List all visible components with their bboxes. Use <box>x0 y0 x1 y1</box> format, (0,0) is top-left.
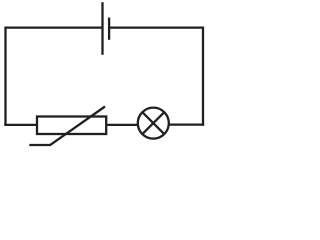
wire top-left (battery positive plate to top-left corner) <box>6 26 103 28</box>
wire thermistor to lamp <box>106 124 138 126</box>
wire right side <box>202 26 204 125</box>
lamp L1 circle <box>138 108 169 139</box>
thermistor RT1 diagonal with tail <box>29 107 105 146</box>
battery B1 long plate (positive) <box>101 2 103 55</box>
lamp L1 cross stroke 1 <box>142 112 164 134</box>
battery B1 short plate (negative) <box>108 18 110 40</box>
thermistor RT1 body <box>37 117 106 135</box>
wire top-right (battery negative plate to top-right corner) <box>109 26 203 28</box>
wire bottom-left (to thermistor) <box>4 124 37 126</box>
lamp L1 cross stroke 2 <box>142 112 164 134</box>
wire bottom-right (right corner to lamp) <box>169 123 204 125</box>
wire left side <box>4 26 6 126</box>
